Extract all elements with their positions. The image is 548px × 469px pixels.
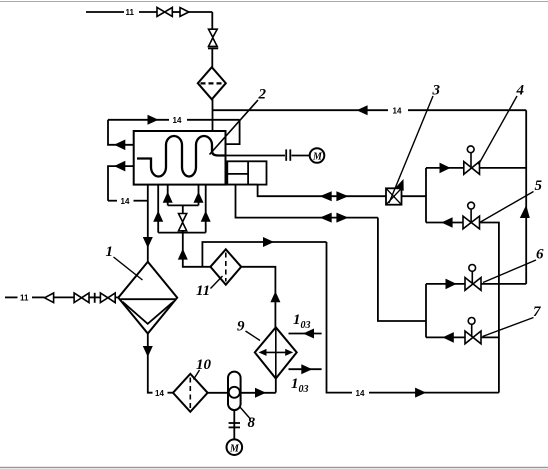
v4 line xyxy=(198,185,200,206)
he bottom down line to filter 1 xyxy=(148,185,211,267)
leader label 8 xyxy=(240,407,251,419)
coupling bars bottom xyxy=(229,422,240,424)
wire valve to filter diamond xyxy=(211,48,213,67)
svg-text:4: 4 xyxy=(516,83,525,99)
wire valve 6 to right vertical xyxy=(481,283,526,285)
leader label 9 xyxy=(246,331,261,341)
svg-text:2: 2 xyxy=(258,87,267,103)
svg-text:3: 3 xyxy=(432,83,441,99)
he left output upper xyxy=(108,120,148,201)
svg-text:11: 11 xyxy=(126,8,135,17)
line2 vertical down xyxy=(378,218,426,321)
check valve top inlet xyxy=(180,8,189,17)
leader label 5 xyxy=(481,192,534,223)
svg-text:1: 1 xyxy=(106,244,114,260)
valve inlet 2 xyxy=(100,293,115,303)
leader label 1 xyxy=(114,257,143,280)
step down to line1 xyxy=(258,185,386,197)
wire filter11 right to comp9 xyxy=(202,242,499,393)
wire right main vertical xyxy=(525,110,527,284)
svg-text:7: 7 xyxy=(533,304,541,320)
scan border top xyxy=(0,1,548,3)
wire check to corner xyxy=(189,11,213,13)
leader label 10 xyxy=(194,370,200,380)
motor M bottom xyxy=(227,439,243,455)
inlet line bottom left xyxy=(5,296,118,298)
v2 line xyxy=(157,185,159,233)
arrow line1 right xyxy=(336,191,348,201)
valve inlet 1 xyxy=(74,293,89,303)
arrow up center drop xyxy=(178,249,188,260)
arrow accumulator out xyxy=(255,388,266,398)
svg-text:8: 8 xyxy=(248,415,256,431)
check valve inlet xyxy=(45,293,54,303)
leader label 4 xyxy=(479,96,518,165)
svg-text:6: 6 xyxy=(536,247,544,263)
wire corner down to valve xyxy=(211,12,213,29)
heat exchanger coil xyxy=(137,136,226,177)
arrow up v3 xyxy=(163,192,173,203)
heat exchanger 2 body xyxy=(134,131,226,185)
wire between valve and check xyxy=(172,11,180,13)
filter 11 diamond xyxy=(210,249,241,284)
stub 103 lower xyxy=(289,368,322,370)
arrow up v2 xyxy=(153,211,163,222)
leader label 2 xyxy=(210,100,259,155)
arrow down below filter1 xyxy=(143,346,153,357)
wire throttle to bracket xyxy=(402,195,427,197)
line3 branch xyxy=(202,242,326,267)
wire filter10 to accumulator xyxy=(208,392,228,394)
upper bracket xyxy=(168,204,199,206)
wire accumulator out xyxy=(241,392,276,394)
wire to valve 7 xyxy=(426,336,465,338)
wire to valve 5 xyxy=(426,222,463,224)
throttle 3 box xyxy=(386,188,402,204)
arrow line2 right xyxy=(336,213,348,223)
arrow line2 left xyxy=(320,213,332,223)
arrow up v5 xyxy=(201,211,211,222)
comp9 bottom stem xyxy=(275,379,277,393)
side box on he right xyxy=(226,161,427,321)
wire valve 5 to corner xyxy=(480,223,499,393)
wire valve 7 to right vertical B xyxy=(481,336,499,338)
leader label 6 xyxy=(483,260,536,283)
v5 line xyxy=(205,185,207,233)
svg-text:11: 11 xyxy=(196,283,210,299)
shutoff valve top inlet xyxy=(157,7,172,16)
arrow line1 left xyxy=(320,191,332,201)
wire 14 top-left xyxy=(108,119,169,121)
svg-text:9: 9 xyxy=(237,319,245,335)
svg-text:14: 14 xyxy=(155,389,164,398)
leader label 11 xyxy=(211,276,223,289)
line2 from box bottom xyxy=(236,185,378,218)
svg-text:14: 14 xyxy=(121,197,130,206)
leader label 3 through box xyxy=(389,96,433,203)
filter 10 diamond xyxy=(173,374,208,412)
center drop to filter 11 xyxy=(183,233,211,267)
svg-text:10: 10 xyxy=(196,357,212,373)
arrow out upper left xyxy=(114,140,125,151)
comp 9 diamond xyxy=(255,327,297,378)
svg-text:14: 14 xyxy=(173,116,182,125)
stub 103 upper xyxy=(289,333,322,335)
scan border bottom xyxy=(0,467,548,469)
svg-text:M: M xyxy=(312,152,323,163)
wire to valve 4 xyxy=(426,167,464,169)
filter1 down to 14 xyxy=(148,334,173,393)
valve 7 xyxy=(465,331,481,344)
arrow up to filter 11 xyxy=(270,291,280,302)
arrow out of valve 5 xyxy=(441,217,452,228)
check valve he bottom xyxy=(179,214,187,231)
he left output lower to 14 xyxy=(108,166,134,201)
arrow out lower left xyxy=(114,161,125,172)
arrow 14 top-left right xyxy=(148,115,159,125)
coupling bars xyxy=(285,149,287,160)
svg-text:14: 14 xyxy=(393,107,402,116)
filter 1 diamond xyxy=(118,262,177,334)
arrow up right vertical xyxy=(520,205,530,218)
arrow into valve 4 xyxy=(440,163,451,174)
valve vertical on down line xyxy=(209,29,218,46)
arrow down to filter 1 xyxy=(143,237,153,248)
svg-text:14: 14 xyxy=(356,389,365,398)
valve 5 xyxy=(463,216,480,229)
arrow line3 right xyxy=(263,237,274,247)
leader label 7 xyxy=(483,318,534,337)
lower bracket xyxy=(158,232,206,234)
wire filter to heat exchanger top xyxy=(212,99,214,131)
accumulator 8 capsule xyxy=(228,372,241,411)
wire to valve 6 xyxy=(426,283,465,285)
bracket valves 4-5 xyxy=(425,168,427,223)
arrow bottom 14 right xyxy=(415,388,426,398)
motor line from coil xyxy=(226,155,286,157)
he bottom edge extension xyxy=(226,184,258,186)
bracket valves 6-7 xyxy=(425,284,427,338)
valve 6 xyxy=(465,278,481,291)
motor M top xyxy=(310,148,325,163)
accumulator drive line xyxy=(233,410,235,439)
arrow 14 top-right left xyxy=(357,105,368,115)
valve 4 xyxy=(464,162,480,175)
valve seat bar xyxy=(208,47,218,49)
flange bar xyxy=(94,293,96,303)
arrow up v4 xyxy=(194,192,204,203)
arrow into valve 6 xyxy=(446,279,457,290)
wire step down right of 14 xyxy=(226,120,240,144)
svg-text:M: M xyxy=(229,444,240,455)
throttle adjust arrowhead xyxy=(395,179,403,191)
v3 line xyxy=(167,185,169,206)
arrow out of valve 7 xyxy=(443,332,454,343)
svg-text:11: 11 xyxy=(20,294,29,303)
vertical to bottom 14 xyxy=(327,242,353,393)
filter-dryer diamond top xyxy=(198,67,226,99)
wire valve 4 to right vertical xyxy=(480,167,527,169)
wire top inlet left xyxy=(86,11,124,13)
wire after label 11 xyxy=(139,11,157,13)
wire 14 top-right xyxy=(108,110,526,284)
svg-text:5: 5 xyxy=(535,178,543,194)
